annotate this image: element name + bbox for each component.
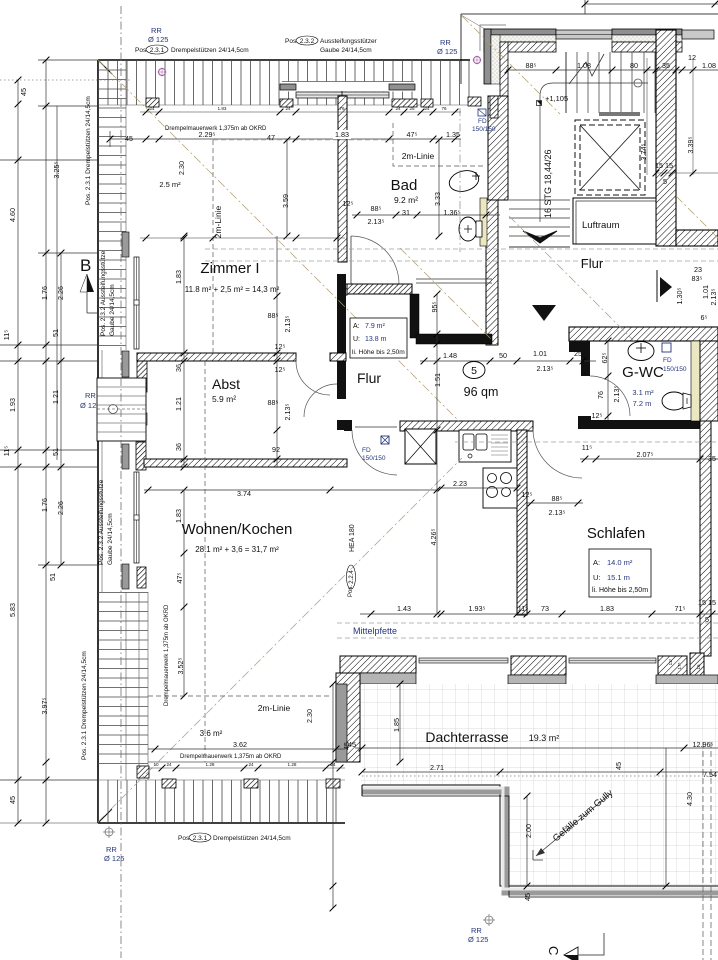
svg-text:7.2 m: 7.2 m xyxy=(633,399,652,408)
svg-text:3.74: 3.74 xyxy=(237,489,251,498)
svg-text:47⁵: 47⁵ xyxy=(407,130,418,139)
svg-text:1.83: 1.83 xyxy=(174,509,183,523)
parapet wall band L-shape xyxy=(362,785,718,897)
svg-text:Schlafen: Schlafen xyxy=(587,525,645,542)
svg-text:73: 73 xyxy=(541,604,549,613)
gwc door arc xyxy=(590,376,630,416)
left wall gray pier y232 xyxy=(122,232,129,257)
svg-text:12⁵: 12⁵ xyxy=(522,490,533,499)
terrace tile field right xyxy=(508,684,718,886)
svg-text:15 15: 15 15 xyxy=(698,598,716,607)
bottom wall gray cap 2 xyxy=(508,675,566,684)
dim row y139 xyxy=(110,131,461,147)
flur top wall below bad xyxy=(347,284,412,294)
wall flur/wohnen horizontal with kitchen xyxy=(400,421,533,431)
gwc right beige lining xyxy=(691,341,700,421)
svg-text:3.52⁵: 3.52⁵ xyxy=(176,657,185,674)
svg-text:24: 24 xyxy=(285,106,291,111)
gwc inner dims vertical x608 xyxy=(607,341,609,420)
svg-text:Bad: Bad xyxy=(391,177,418,194)
svg-text:Drempelmauerwerk 1,375m ab OKR: Drempelmauerwerk 1,375m ab OKRD xyxy=(165,126,267,132)
svg-text:150/150: 150/150 xyxy=(362,455,386,462)
svg-text:Pos. 2.3.1 Drempelstützen 24/: Pos. 2.3.1 Drempelstützen 24/14,5cm xyxy=(81,651,88,760)
right outer wall hatched lower xyxy=(700,421,711,656)
wohnen door swing arc xyxy=(352,430,397,475)
svg-text:RR: RR xyxy=(471,926,482,935)
svg-text:1.08: 1.08 xyxy=(577,61,591,70)
bottom window 1 xyxy=(419,658,508,663)
svg-text:1.21: 1.21 xyxy=(174,397,183,411)
svg-text:Ø 125: Ø 125 xyxy=(437,47,457,56)
kitchen shaft with X xyxy=(405,429,436,464)
svg-text:25: 25 xyxy=(572,345,580,354)
top rafter band inner line xyxy=(98,104,470,106)
svg-text:Aussteifungsstützer: Aussteifungsstützer xyxy=(320,38,378,45)
kitchen dim row y488 xyxy=(441,487,517,489)
svg-text:1.28: 1.28 xyxy=(288,762,297,767)
svg-text:5.83: 5.83 xyxy=(8,603,17,617)
svg-text:3.25⁵: 3.25⁵ xyxy=(52,161,61,178)
svg-text:B: B xyxy=(80,256,91,275)
svg-text:Drempelmauerwerk 1,375m ab OKR: Drempelmauerwerk 1,375m ab OKRD xyxy=(164,604,170,706)
svg-text:62⁵: 62⁵ xyxy=(600,352,609,363)
svg-text:2.2.4: 2.2.4 xyxy=(349,570,355,584)
svg-text:Abst: Abst xyxy=(212,376,240,392)
svg-text:88⁵: 88⁵ xyxy=(526,61,537,70)
gwc left wall upper xyxy=(569,341,590,376)
dotted horizontal y80 left xyxy=(0,79,130,81)
svg-text:11.8 m² + 2,5 m² = 14,3 m²: 11.8 m² + 2,5 m² = 14,3 m² xyxy=(185,285,280,294)
hatched post left wall y442 xyxy=(136,442,146,470)
svg-text:35: 35 xyxy=(662,61,670,70)
svg-text:Flur: Flur xyxy=(581,256,604,271)
svg-text:2.26: 2.26 xyxy=(56,501,65,515)
svg-text:Ø 125: Ø 125 xyxy=(148,35,168,44)
dormer rafter clear zone xyxy=(282,82,414,92)
svg-text:7.9 m²: 7.9 m² xyxy=(365,323,386,330)
hatched post top band x468 xyxy=(468,97,481,106)
outer wall top edge xyxy=(98,59,470,61)
stair direction triangle right xyxy=(660,277,672,297)
svg-text:4.30: 4.30 xyxy=(685,792,694,806)
svg-text:1.48: 1.48 xyxy=(443,351,457,360)
svg-text:71⁵: 71⁵ xyxy=(675,604,686,613)
svg-text:2.23: 2.23 xyxy=(453,479,467,488)
drempel dim row y749 xyxy=(148,748,345,750)
svg-text:1.35: 1.35 xyxy=(446,130,460,139)
purple rr circle top-right xyxy=(474,57,481,64)
svg-text:15 15: 15 15 xyxy=(655,161,673,170)
flur dim row y361 xyxy=(420,360,596,362)
svg-text:2m-Linie: 2m-Linie xyxy=(402,151,435,161)
svg-text:12⁵: 12⁵ xyxy=(592,411,603,420)
svg-text:2.13⁵: 2.13⁵ xyxy=(549,508,566,517)
stair break line xyxy=(569,54,604,84)
stairwell top wall right segment hatch xyxy=(612,42,682,52)
svg-text:88⁵: 88⁵ xyxy=(371,204,382,213)
svg-text:88⁵: 88⁵ xyxy=(268,398,279,407)
svg-text:Drempelstützen 24/14,5cm: Drempelstützen 24/14,5cm xyxy=(213,835,291,842)
svg-text:1.93: 1.93 xyxy=(8,398,17,412)
bad beige wall lining xyxy=(480,198,487,246)
hatched posts bottom band xyxy=(137,766,149,778)
svg-text:HEA 180: HEA 180 xyxy=(349,524,356,552)
dormer window sill top right xyxy=(389,84,415,90)
level mark +1,105 xyxy=(537,101,542,106)
bottom band inner line y762 xyxy=(148,761,345,763)
svg-text:150/150: 150/150 xyxy=(663,366,687,373)
entrance arrow triangle xyxy=(532,305,556,321)
terrace vertical dim x527 xyxy=(526,796,528,886)
hatched post left wall y353 xyxy=(137,353,147,392)
left wall gray pier y444 xyxy=(122,444,129,469)
svg-text:Dachterrasse: Dachterrasse xyxy=(425,729,508,745)
svg-text:9.2 m²: 9.2 m² xyxy=(394,195,418,205)
svg-text:14.0 m²: 14.0 m² xyxy=(607,558,633,567)
roof diagonal L4 stairwell corner xyxy=(462,16,560,114)
svg-text:Ø 125: Ø 125 xyxy=(468,935,488,944)
svg-text:2.13⁵: 2.13⁵ xyxy=(368,217,385,226)
svg-text:Gaube 24/14,5cm: Gaube 24/14,5cm xyxy=(107,513,114,565)
svg-text:FD: FD xyxy=(362,447,371,454)
svg-text:10: 10 xyxy=(153,762,159,767)
stairwell wall to right edge xyxy=(676,230,718,246)
kitchen sink unit xyxy=(459,430,511,462)
svg-text:83⁵: 83⁵ xyxy=(692,274,703,283)
left dim chain x66 xyxy=(60,253,62,565)
vertical dim x437 flur xyxy=(436,294,438,614)
stairwell corner step outline xyxy=(480,25,506,51)
svg-text:1.36⁵: 1.36⁵ xyxy=(444,208,461,217)
svg-text:+1,105: +1,105 xyxy=(545,94,568,103)
svg-text:47⁵: 47⁵ xyxy=(175,572,184,583)
stairwell dim row y70 xyxy=(506,69,718,71)
svg-text:25: 25 xyxy=(409,106,415,111)
svg-text:88⁵: 88⁵ xyxy=(268,311,279,320)
svg-text:51: 51 xyxy=(51,448,60,456)
wall Zimmer right vertical xyxy=(337,274,346,399)
svg-text:24: 24 xyxy=(330,762,336,767)
svg-text:1.30⁵: 1.30⁵ xyxy=(675,287,684,304)
abst door leaf+arc from flur xyxy=(304,384,337,417)
stairwell left wall gray band xyxy=(484,29,491,84)
kitchen dim row y503 88.5 xyxy=(527,502,583,504)
svg-text:1.01: 1.01 xyxy=(533,349,547,358)
svg-text:Pos. 2.3.2 Aussteifungsstütze: Pos. 2.3.2 Aussteifungsstütze xyxy=(100,250,107,336)
svg-text:FD: FD xyxy=(663,357,672,364)
bad door leaf xyxy=(350,236,352,284)
right outer wall hatched upper xyxy=(700,341,718,421)
blue FD labels xyxy=(478,109,486,116)
rr symbol bottom left xyxy=(105,828,113,836)
outer wall bottom edge xyxy=(98,822,345,824)
svg-text:Pos.: Pos. xyxy=(348,585,354,597)
svg-text:RR: RR xyxy=(85,391,96,400)
svg-text:li. Höhe bis 2,50m: li. Höhe bis 2,50m xyxy=(592,587,648,594)
left rafter band rungs upper xyxy=(98,60,126,350)
right vertical dims x647 x693 xyxy=(647,58,718,175)
svg-text:G-WC: G-WC xyxy=(622,364,664,381)
stairwell top window right xyxy=(682,30,714,39)
svg-text:FD: FD xyxy=(478,118,487,125)
bad right wall post xyxy=(490,96,498,118)
2m line wohnen horizontal dashed xyxy=(148,695,330,697)
left wall window Wohnen xyxy=(134,472,139,563)
svg-text:24: 24 xyxy=(166,762,172,767)
svg-text:12.96⁵: 12.96⁵ xyxy=(693,740,714,749)
svg-text:Gaube 24/14,5cm: Gaube 24/14,5cm xyxy=(320,47,372,54)
top dim row y112 small xyxy=(140,111,461,113)
svg-text:3.6 m²: 3.6 m² xyxy=(200,729,223,738)
svg-text:96 qm: 96 qm xyxy=(464,385,499,399)
left wall double edge mid xyxy=(101,350,103,592)
left wall gray pier y351 xyxy=(122,351,129,377)
info box flur xyxy=(350,318,407,358)
svg-text:12: 12 xyxy=(688,53,696,62)
svg-text:Flur: Flur xyxy=(357,370,381,386)
terrace left wall gray strip xyxy=(336,684,347,762)
svg-text:24: 24 xyxy=(248,762,254,767)
upper flight bottom edge xyxy=(599,112,640,116)
svg-text:1.83: 1.83 xyxy=(335,130,349,139)
bottom wall pier 4 hatched xyxy=(690,653,704,680)
lower stair flight treads xyxy=(509,200,570,247)
roof diagonal L2 xyxy=(98,458,462,822)
svg-text:1.83: 1.83 xyxy=(218,106,227,111)
svg-text:3.59: 3.59 xyxy=(281,194,290,208)
bad toilet xyxy=(459,217,477,241)
svg-text:2.29⁵: 2.29⁵ xyxy=(199,130,216,139)
svg-text:3.97⁵: 3.97⁵ xyxy=(40,697,49,714)
svg-text:11⁵: 11⁵ xyxy=(2,446,11,456)
wall Zimmer/Bad lower stub xyxy=(338,284,347,295)
svg-text:12⁵: 12⁵ xyxy=(275,365,286,374)
svg-text:150/150: 150/150 xyxy=(472,126,496,133)
bottom drempel band rungs xyxy=(98,780,345,823)
svg-text:15.1 m: 15.1 m xyxy=(607,573,630,582)
top rafter band rungs xyxy=(98,60,470,105)
exterior stair box xyxy=(97,378,146,441)
svg-text:16 STG 18,44/26: 16 STG 18,44/26 xyxy=(543,149,553,218)
stairwell block thin outline top xyxy=(461,13,718,15)
stairwell left wall stipple xyxy=(491,35,500,84)
stairwell top window xyxy=(556,30,612,39)
terrace dim row y772 xyxy=(362,771,718,773)
svg-text:1.76: 1.76 xyxy=(40,286,49,300)
svg-text:11⁵: 11⁵ xyxy=(518,604,528,613)
terrace vertical dim x666 xyxy=(665,748,667,886)
svg-text:1.28: 1.28 xyxy=(206,762,215,767)
drempel post dim row y768 xyxy=(148,767,345,769)
svg-text:45: 45 xyxy=(19,88,28,96)
svg-text:2.3.1: 2.3.1 xyxy=(193,835,208,842)
svg-text:2.30: 2.30 xyxy=(177,161,186,175)
corner chamfer top-left xyxy=(98,60,112,74)
svg-text:1.08: 1.08 xyxy=(702,61,716,70)
svg-text:Wohnen/Kochen: Wohnen/Kochen xyxy=(182,521,293,538)
svg-text:24: 24 xyxy=(424,106,430,111)
svg-text:2.13⁵: 2.13⁵ xyxy=(537,364,554,373)
svg-text:1.85: 1.85 xyxy=(392,718,401,732)
svg-text:2.00: 2.00 xyxy=(524,824,533,838)
wohnen dim row y490 xyxy=(144,489,437,491)
svg-text:2.5 m²: 2.5 m² xyxy=(159,180,181,189)
svg-text:Zimmer I: Zimmer I xyxy=(200,260,259,277)
svg-text:17⁵: 17⁵ xyxy=(677,662,682,669)
gwc top wall hatched xyxy=(569,327,718,341)
svg-text:2.13⁵: 2.13⁵ xyxy=(283,403,292,420)
svg-text:19.3 m²: 19.3 m² xyxy=(529,733,560,743)
svg-text:1.93⁵: 1.93⁵ xyxy=(469,604,486,613)
vertical dim x290 abst doors xyxy=(276,236,278,467)
stairwell top wall left segment hatch xyxy=(484,42,556,52)
roof diagonal L3 niche xyxy=(400,248,497,345)
hatched post left lower y430 area small xyxy=(137,413,147,425)
svg-text:2.26: 2.26 xyxy=(56,286,65,300)
svg-text:28.1 m² + 3,6 = 31,7 m²: 28.1 m² + 3,6 = 31,7 m² xyxy=(195,545,279,554)
svg-text:36: 36 xyxy=(174,364,183,372)
vertical dim x184 zimmer xyxy=(183,236,185,467)
section line x460 dash-dot xyxy=(459,108,461,252)
svg-text:3.62: 3.62 xyxy=(233,740,247,749)
svg-text:45: 45 xyxy=(125,134,133,143)
roof diagonal L6 xyxy=(676,196,718,238)
stairwell right wall hatch xyxy=(656,30,676,246)
svg-text:C: C xyxy=(546,946,561,955)
2m line wohnen vertical dashed xyxy=(204,361,206,762)
stair/bad wall hatch lower xyxy=(486,200,498,345)
svg-text:24: 24 xyxy=(395,106,401,111)
stair walking line with arrow xyxy=(540,83,648,222)
lintel thin lines over niche xyxy=(416,278,492,280)
bottom wall pier 3 hatched xyxy=(658,656,687,675)
bottom band top line xyxy=(98,779,345,781)
stairwell top wall left segment stipple xyxy=(484,35,556,42)
vertical dim x439 bad 3.33 xyxy=(438,140,440,236)
bad door dim y211 xyxy=(352,214,500,216)
svg-text:Pos. 2.3.1 Drempelstützen 24/: Pos. 2.3.1 Drempelstützen 24/14,5cm xyxy=(85,96,92,205)
svg-text:Luftraum: Luftraum xyxy=(582,220,620,231)
svg-text:4.26⁵: 4.26⁵ xyxy=(429,528,438,545)
hatched post top band x392 xyxy=(392,99,417,107)
stairwell left wall hatch upper xyxy=(500,42,508,97)
wohnen door leaf xyxy=(355,426,397,428)
svg-text:24: 24 xyxy=(149,106,155,111)
svg-text:11⁵: 11⁵ xyxy=(582,443,592,452)
wall stub left of gwc door xyxy=(578,416,591,429)
bottom wall pier 2 hatched xyxy=(511,656,566,675)
apartment number circle xyxy=(463,362,485,379)
left dim chain x14 xyxy=(0,80,98,823)
top edge dim row y4 xyxy=(585,3,718,5)
svg-text:U:: U: xyxy=(353,336,360,343)
lower left band inner verticals xyxy=(125,592,127,780)
svg-text:3.33: 3.33 xyxy=(433,192,442,206)
svg-text:45: 45 xyxy=(614,762,623,770)
bottom wall gray cap 1 xyxy=(355,673,416,684)
wall Zimmer/Abst horizontal hatched xyxy=(137,353,296,361)
hatched post top band x280 xyxy=(280,99,293,107)
extension line x585 top xyxy=(584,0,586,14)
svg-text:5: 5 xyxy=(663,177,667,186)
left wall window Zimmer I xyxy=(134,257,139,349)
flur niche wall vertical xyxy=(410,294,419,338)
stair/bad wall hatch mid xyxy=(488,96,508,200)
svg-text:16: 16 xyxy=(696,664,701,670)
stairwell block thin outline left xyxy=(460,14,462,84)
svg-text:2.13⁵: 2.13⁵ xyxy=(612,385,621,402)
svg-text:31: 31 xyxy=(402,208,410,217)
svg-text:3.1 m²: 3.1 m² xyxy=(632,388,654,397)
svg-text:11⁵: 11⁵ xyxy=(668,659,673,666)
schlafen dim row y614 xyxy=(360,613,718,615)
svg-text:1.83: 1.83 xyxy=(174,270,183,284)
svg-text:7.54: 7.54 xyxy=(703,770,717,779)
svg-text:50: 50 xyxy=(499,351,507,360)
2m line bad dashed xyxy=(393,123,486,166)
mittelpfette dashed pair xyxy=(337,622,718,624)
dotted line terrace y776 xyxy=(362,775,718,777)
svg-text:Mittelpfette: Mittelpfette xyxy=(353,626,397,636)
stairwell top wall right segment gray band xyxy=(612,29,682,35)
svg-text:3.39⁵: 3.39⁵ xyxy=(686,136,695,153)
mittelpfette label xyxy=(350,624,402,636)
svg-text:U:: U: xyxy=(593,573,601,582)
svg-text:35: 35 xyxy=(708,454,716,463)
rr symbol bottom right xyxy=(485,916,493,924)
dashed 2m bad horizontal upper xyxy=(213,139,393,141)
svg-text:1.76: 1.76 xyxy=(40,498,49,512)
upper stair flight treads xyxy=(566,52,655,113)
bad washbasin xyxy=(447,167,481,194)
gray dashed pair y261 xyxy=(205,260,718,262)
kitchen stove xyxy=(483,468,517,508)
luftraum railing box xyxy=(573,198,656,244)
hatched post left wall y567 xyxy=(137,567,146,588)
lower left band inner line xyxy=(147,592,149,780)
hatched post top band x421 xyxy=(421,99,433,107)
left rafter band rungs lower xyxy=(98,592,148,764)
svg-text:RR: RR xyxy=(440,38,451,47)
bottom window 2 xyxy=(569,658,656,663)
hatched post top band x146 xyxy=(146,98,159,107)
corner chamfer bottom-left xyxy=(98,809,112,823)
svg-text:76: 76 xyxy=(339,106,345,111)
svg-text:1.51: 1.51 xyxy=(433,373,442,387)
svg-text:92: 92 xyxy=(272,445,280,454)
left band inner vertical line xyxy=(125,60,127,350)
svg-text:47: 47 xyxy=(267,133,275,142)
gully slope arrow xyxy=(536,794,610,856)
svg-text:4.60: 4.60 xyxy=(8,208,17,222)
roof diagonal L1 xyxy=(98,60,459,421)
schlafen door leaf+arc xyxy=(533,429,582,478)
wall Zimmer/Bad vertical hatched xyxy=(338,96,347,262)
svg-text:13.8 m: 13.8 m xyxy=(365,336,387,343)
vertical dim x285 zimmer 3.59 xyxy=(286,140,288,236)
section line x121 dash-dot xyxy=(120,6,122,958)
gray dashed pair y249 xyxy=(205,248,718,250)
svg-text:12⁵: 12⁵ xyxy=(343,199,354,208)
svg-text:2.71: 2.71 xyxy=(430,763,444,772)
svg-text:1.83: 1.83 xyxy=(600,604,614,613)
svg-text:51: 51 xyxy=(51,329,60,337)
zimmer top dim row y238 xyxy=(140,237,345,239)
svg-text:12⁵: 12⁵ xyxy=(275,342,286,351)
svg-text:23: 23 xyxy=(694,265,702,274)
svg-text:5: 5 xyxy=(705,615,709,624)
wall abst/flur lower stub xyxy=(337,420,347,430)
